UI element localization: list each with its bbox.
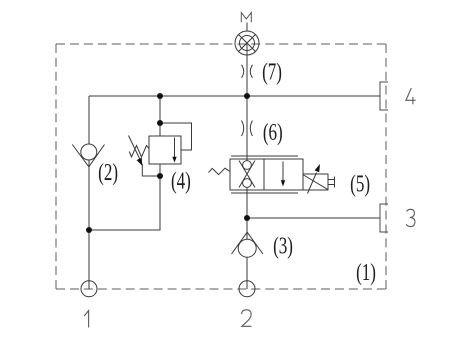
wire to port 3 <box>247 217 380 219</box>
wire supply horizontal <box>89 23 380 290</box>
valve V body extra lines <box>231 156 298 193</box>
svg-text:(2): (2) <box>98 158 118 186</box>
port 1 circle <box>81 281 97 297</box>
port 2 circle <box>239 281 255 297</box>
svg-text:(7): (7) <box>262 58 282 86</box>
port 3 notch <box>380 204 388 232</box>
wire relief spring drain <box>142 164 160 176</box>
relief valve R4 spring <box>129 146 149 158</box>
valve V flow arrow <box>282 162 284 182</box>
valve V body <box>230 159 303 190</box>
port 4 notch <box>380 82 388 110</box>
solenoid S5 prop arrow <box>308 173 317 194</box>
wire relief inlet <box>159 96 161 136</box>
valve V check balls <box>243 161 252 170</box>
enclosure dashed border <box>56 44 386 289</box>
wire relief pilot <box>160 123 192 150</box>
port digit 1 <box>84 311 88 328</box>
port digit 2 <box>242 310 252 327</box>
wire relief outlet <box>89 164 160 230</box>
relief valve R4 adjust arrow <box>129 136 141 160</box>
check valve C2 <box>72 144 104 167</box>
motor fan symbol <box>235 31 259 55</box>
relief valve R4 arrowhead <box>172 157 176 163</box>
solenoid S5 box <box>303 174 328 190</box>
solenoid S5 connector <box>328 177 335 188</box>
wire pump vertical <box>246 43 248 162</box>
port digit 3 <box>406 209 415 226</box>
svg-text:(1): (1) <box>356 258 376 286</box>
svg-text:(6): (6) <box>263 118 283 146</box>
junction dots <box>86 93 250 233</box>
motor label M <box>241 13 251 23</box>
svg-text:(5): (5) <box>350 170 370 198</box>
wire left vertical <box>88 96 90 289</box>
wire M to pump <box>246 23 248 32</box>
svg-text:(3): (3) <box>273 232 293 260</box>
relief valve R4 box <box>149 136 181 164</box>
svg-text:(4): (4) <box>171 167 191 195</box>
coupling 7 <box>242 65 253 78</box>
check valve C3 <box>232 232 264 257</box>
valve V check seats X <box>239 161 255 188</box>
port digit 4 <box>406 88 416 104</box>
coupling 6 <box>242 121 253 137</box>
valve V spring <box>209 168 231 174</box>
wire valve to port2 <box>246 188 248 289</box>
